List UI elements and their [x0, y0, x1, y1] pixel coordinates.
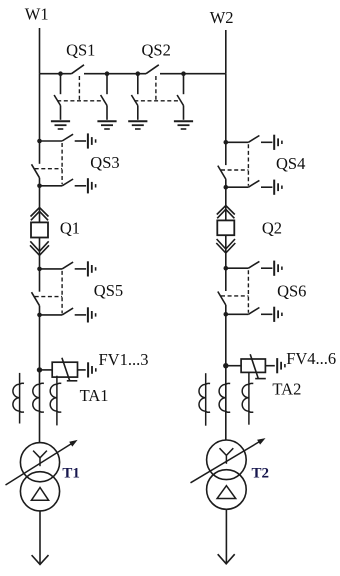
svg-text:TA2: TA2	[272, 380, 301, 399]
junction node on busbar (QS2 left)	[136, 71, 141, 76]
label T1	[62, 465, 80, 481]
disconnector QS3 main blade	[32, 141, 40, 186]
svg-text:QS5: QS5	[94, 281, 123, 300]
current transformer TA2 phase B winding	[219, 383, 230, 412]
wire W1 feeder	[39, 28, 41, 74]
delta symbol (T2)	[217, 486, 236, 499]
ground (QS3 upper earthing switch)	[88, 133, 96, 148]
earthing switch (QS5 upper earthing switch)	[40, 262, 87, 269]
junction node (QS3 bottom)	[37, 184, 42, 189]
interlock linkage QS3 (dashed)	[35, 143, 62, 184]
interlock linkage QS5 (dashed)	[35, 271, 62, 314]
wire: QS5 to FV tap	[39, 315, 41, 370]
svg-text:QS1: QS1	[66, 40, 95, 59]
wire: QS4 to Q2	[225, 187, 227, 220]
svg-text:QS6: QS6	[277, 281, 306, 300]
ground (FV4...6)	[277, 358, 285, 373]
label W1 (busbar 1 feeder)	[25, 5, 49, 24]
transformer T1 LV winding circle	[20, 472, 59, 511]
earthing switch (QS2 left)	[131, 74, 137, 120]
svg-text:W2: W2	[210, 8, 234, 27]
wire from surge arrester FV1...3 to ground	[78, 369, 86, 371]
wire: Q2 to QS6	[225, 235, 227, 268]
earthing switch (QS4 lower earthing switch)	[226, 180, 273, 187]
label Q2	[262, 218, 282, 237]
wire W2 feeder	[225, 30, 227, 74]
svg-text:Q1: Q1	[60, 219, 80, 238]
junction node (FV4...6 tap)	[223, 363, 228, 368]
junction node on busbar (QS1 left)	[58, 71, 63, 76]
ground (QS4 lower earthing switch)	[274, 180, 282, 195]
disconnector QS1 blade	[72, 65, 85, 74]
wire: FV tap through TA1 to T1	[39, 370, 41, 443]
label QS4	[276, 154, 305, 173]
current transformer TA2 phase A stub	[199, 373, 210, 426]
circuit breaker Q1 withdrawable contacts (bottom chevrons)	[30, 241, 49, 255]
ground (QS4 upper earthing switch)	[274, 135, 282, 150]
disconnector QS5 main blade	[32, 269, 40, 315]
label QS6	[277, 281, 306, 300]
current transformer TA1 phase B winding	[33, 383, 44, 412]
earthing switch (QS1 right)	[101, 74, 107, 120]
svg-text:QS4: QS4	[276, 154, 305, 173]
ground (QS3 lower earthing switch)	[88, 178, 96, 193]
ground (QS2 left)	[128, 121, 147, 129]
earthing switch (QS5 lower earthing switch)	[40, 308, 87, 315]
interlock linkage QS2 (dashed)	[134, 76, 180, 101]
current transformer TA1 phase A stub	[13, 373, 24, 424]
label QS1	[66, 40, 95, 59]
wire: T2 to outgoing feeder	[225, 509, 227, 563]
wire: bus to QS4	[225, 74, 227, 143]
label QS5	[94, 281, 123, 300]
junction node (QS3 top)	[37, 139, 42, 144]
svg-text:QS2: QS2	[142, 40, 171, 59]
current transformer TA2 phase C stub	[242, 372, 253, 425]
earthing switch (QS4 upper earthing switch)	[226, 136, 273, 143]
junction node (QS4 top)	[224, 140, 229, 145]
svg-text:T2: T2	[252, 465, 270, 481]
ground (FV1...3)	[88, 362, 96, 377]
earthing switch (QS6 lower earthing switch)	[226, 308, 273, 315]
busbar bridge: wire segment middle	[84, 73, 146, 75]
tap-changer arrow (T2)	[191, 438, 266, 483]
wire: FV tap through TA2 to T2	[225, 366, 227, 441]
circuit breaker Q2 withdrawable contacts (bottom chevrons)	[216, 239, 235, 253]
wire: QS6 to FV tap	[225, 314, 227, 365]
svg-text:QS3: QS3	[90, 153, 119, 172]
interlock linkage QS6 (dashed)	[221, 270, 248, 313]
ground (QS6 lower earthing switch)	[274, 307, 282, 322]
surge arrester FV4...6	[241, 354, 266, 378]
outgoing feeder arrowhead (left)	[32, 555, 49, 564]
ground (QS1 right)	[97, 121, 116, 129]
interlock linkage QS4 (dashed)	[221, 144, 248, 185]
circuit breaker Q1 body	[31, 222, 48, 237]
wire: T1 to outgoing feeder	[39, 511, 41, 564]
junction node (QS4 bottom)	[224, 185, 229, 190]
label QS2	[142, 40, 171, 59]
wire: QS3 to Q1	[39, 186, 41, 223]
tap-changer arrow (T1)	[6, 440, 78, 485]
label Q1	[60, 219, 80, 238]
junction node (QS6 bottom)	[224, 312, 229, 317]
circuit breaker Q2 body	[217, 220, 234, 235]
junction node (FV1...3 tap)	[37, 367, 42, 372]
current transformer TA1 phase C stub	[50, 376, 61, 426]
junction node (QS6 top)	[224, 266, 229, 271]
wye symbol (T2)	[220, 448, 234, 464]
transformer T1 HV winding circle	[20, 443, 59, 482]
delta symbol (T1)	[31, 488, 48, 501]
label W2 (busbar 2 feeder)	[210, 8, 234, 27]
ground (QS6 upper earthing switch)	[274, 261, 282, 276]
junction node on busbar (QS2 right)	[181, 71, 186, 76]
outgoing feeder arrowhead (right)	[218, 554, 235, 564]
disconnector QS4 main blade	[218, 142, 226, 187]
ground (QS1 left)	[51, 121, 70, 129]
wire to surge arrester FV1...3	[40, 369, 53, 371]
busbar bridge: wire segment left	[40, 73, 72, 75]
wire: Q1 to QS5	[39, 238, 41, 269]
label QS3	[90, 153, 119, 172]
busbar bridge: wire segment right	[160, 73, 226, 75]
svg-text:FV1...3: FV1...3	[99, 350, 149, 369]
wire: bus to QS3	[39, 74, 41, 141]
transformer T2 HV winding circle	[207, 440, 247, 480]
svg-text:FV4...6: FV4...6	[286, 349, 336, 368]
disconnector QS6 main blade	[218, 268, 226, 314]
transformer T2 LV winding circle	[207, 470, 247, 510]
earthing switch (QS1 left)	[54, 74, 60, 120]
earthing switch (QS2 right)	[177, 74, 183, 120]
label FV4...6	[286, 349, 336, 368]
label TA1	[80, 386, 109, 405]
svg-text:Q2: Q2	[262, 218, 282, 237]
wire from surge arrester FV4...6 to ground	[265, 365, 274, 367]
earthing switch (QS3 lower earthing switch)	[40, 179, 87, 186]
disconnector QS2 blade	[146, 65, 159, 74]
earthing switch (QS6 upper earthing switch)	[226, 261, 273, 268]
svg-text:T1: T1	[62, 465, 80, 481]
earthing switch (QS3 upper earthing switch)	[40, 134, 87, 141]
circuit breaker Q1 withdrawable contacts (top chevrons)	[31, 208, 49, 221]
label FV1...3	[99, 350, 149, 369]
ground (QS5 lower earthing switch)	[88, 307, 96, 322]
junction node (QS5 top)	[37, 267, 42, 272]
label TA2	[272, 380, 301, 399]
interlock linkage QS1 (dashed)	[57, 76, 104, 101]
ground (QS2 right)	[174, 121, 193, 129]
label T2	[252, 465, 270, 481]
wire to surge arrester FV4...6	[226, 365, 241, 367]
junction node on busbar (QS1 right)	[105, 71, 110, 76]
ground (QS5 upper earthing switch)	[88, 261, 96, 276]
surge arrester FV1...3	[52, 358, 77, 381]
wye symbol (T1)	[33, 451, 47, 467]
svg-text:TA1: TA1	[80, 386, 109, 405]
svg-text:W1: W1	[25, 5, 49, 24]
circuit breaker Q2 withdrawable contacts (top chevrons)	[217, 206, 235, 219]
junction node (QS5 bottom)	[37, 313, 42, 318]
